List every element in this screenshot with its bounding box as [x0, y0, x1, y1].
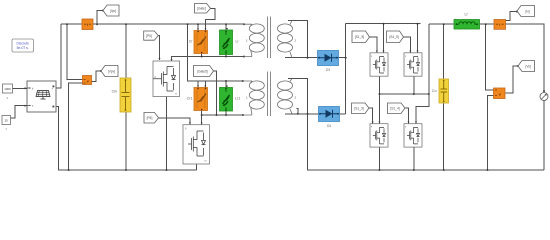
svg-text:D4: D4 [327, 124, 331, 128]
svg-text:Discrete: Discrete [16, 41, 29, 45]
svg-text:[Vo]: [Vo] [525, 64, 531, 68]
svg-text:Lr1: Lr1 [235, 97, 240, 101]
svg-text:g: g [371, 126, 372, 128]
svg-text:[Gate]: [Gate] [197, 7, 206, 11]
svg-text:[S1_5]: [S1_5] [355, 35, 364, 39]
svg-text:g: g [405, 126, 406, 128]
svg-text:D3: D3 [326, 68, 330, 72]
svg-text:[S1_3]: [S1_3] [354, 106, 363, 110]
svg-text:Ir: Ir [32, 86, 34, 90]
svg-text:m: m [175, 93, 177, 96]
svg-text:[S1_4]: [S1_4] [390, 106, 399, 110]
svg-text:1000: 1000 [4, 87, 11, 91]
svg-text:g: g [405, 55, 406, 57]
svg-text:Co: Co [432, 89, 437, 93]
svg-text:-: - [52, 105, 53, 109]
svg-text:[P6]: [P6] [147, 116, 153, 120]
svg-text:Cin: Cin [112, 90, 117, 94]
svg-text:Ir: Ir [7, 96, 9, 100]
svg-text:v: v [87, 80, 89, 84]
svg-text:Cr1: Cr1 [187, 97, 193, 101]
svg-text:5e-07 s.: 5e-07 s. [17, 46, 29, 50]
svg-text:[Vpv]: [Vpv] [108, 69, 115, 73]
svg-text:25: 25 [5, 118, 9, 122]
svg-text:[Gate5]: [Gate5] [197, 69, 208, 73]
svg-text:g: g [371, 55, 372, 57]
svg-text:[Io]: [Io] [525, 9, 530, 13]
svg-text:[Ipv]: [Ipv] [110, 9, 116, 13]
svg-text:i: i [87, 22, 88, 27]
svg-text:Lf: Lf [465, 13, 468, 17]
svg-text:[P5]: [P5] [146, 34, 152, 38]
svg-text:[S4_5]: [S4_5] [389, 35, 398, 39]
svg-text:m: m [205, 160, 207, 163]
svg-text:T: T [5, 128, 7, 132]
svg-text:i: i [499, 22, 500, 27]
